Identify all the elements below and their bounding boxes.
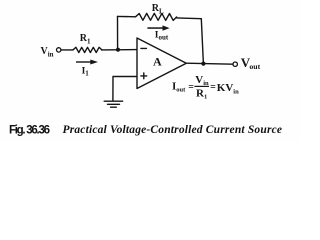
- arrow I1 current direction: [76, 60, 98, 65]
- op-amp non-inverting pin plus sign: [141, 75, 147, 77]
- arrow Iout current direction: [147, 25, 169, 30]
- ground: [104, 100, 122, 102]
- wire Vin terminal to R1: [61, 49, 73, 51]
- formula fraction bar: [194, 86, 209, 87]
- svg-text:Fig. 36.36: Fig. 36.36: [9, 124, 50, 136]
- wire vertical up from input junction: [117, 16, 119, 49]
- wire R1 to op-amp inverting input: [102, 49, 137, 51]
- op-amp inverting pin minus sign: [141, 47, 147, 49]
- wire RL to right corner: [177, 17, 202, 20]
- wire op-amp output to Vout: [186, 62, 233, 65]
- node Vout output terminal: [233, 62, 237, 66]
- wire top left to RL: [118, 15, 136, 17]
- svg-text:A: A: [153, 54, 162, 68]
- op-amp U1 triangle: [137, 38, 186, 89]
- svg-text:=: =: [188, 82, 194, 93]
- wire non-inverting input to ground: [113, 77, 137, 101]
- svg-text:Practical Voltage-Controlled C: Practical Voltage-Controlled Current Sou…: [63, 124, 283, 136]
- resistor RL: [136, 13, 177, 20]
- svg-text:=: =: [210, 82, 216, 93]
- node junction output: [201, 62, 205, 66]
- node Vin input terminal: [57, 48, 61, 52]
- wire vertical down right side: [201, 19, 203, 64]
- resistor R1: [73, 47, 102, 52]
- node junction input: [116, 48, 120, 52]
